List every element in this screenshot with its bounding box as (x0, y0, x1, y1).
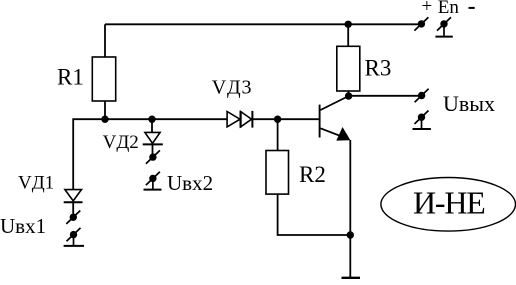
wire VD2 to input terminal (152, 144, 154, 153)
svg-text:Uвх1: Uвх1 (0, 214, 46, 238)
node emitter/R2/ground junction (347, 231, 354, 238)
svg-text:VД3: VД3 (212, 77, 253, 99)
node junction VD2/bus (148, 116, 155, 123)
transistor VT emitter arrow (336, 127, 350, 141)
node collector/R3/output junction (345, 92, 352, 99)
wire R1 bottom to bus (104, 101, 106, 119)
wire R2 drop (277, 119, 279, 150)
ground (342, 277, 361, 279)
diode VD2 (143, 132, 163, 144)
svg-text:VД2: VД2 (103, 132, 139, 153)
wire VD2 drop (151, 119, 153, 132)
terminal Uvyh output (415, 89, 429, 102)
wire top supply bus (105, 23, 421, 25)
terminal common under Uvyh (413, 111, 431, 130)
transistor VT collector (321, 96, 349, 110)
wire output (349, 95, 422, 97)
gate type ellipse (381, 178, 516, 232)
terminal Uvx2 input (146, 150, 160, 163)
svg-text:Uвых: Uвых (443, 91, 495, 116)
svg-text:R1: R1 (57, 65, 84, 90)
wire main input bus left with drop to VD1 (73, 119, 227, 189)
resistor R1 (92, 57, 115, 101)
terminal Uvx1 input (66, 211, 80, 224)
svg-text:R2: R2 (299, 162, 326, 187)
wire to ground (349, 235, 351, 277)
terminal En plus (414, 17, 428, 30)
svg-text:И-НЕ: И-НЕ (413, 185, 485, 221)
svg-text:Uвх2: Uвх2 (167, 171, 213, 195)
terminal common under Uvx1 (64, 228, 84, 246)
svg-text:+: + (422, 0, 433, 17)
terminal common under Uvx2 (144, 172, 162, 190)
wire R3 bottom (347, 91, 349, 96)
transistor VT emitter (321, 128, 341, 136)
node junction R3/top bus (345, 21, 352, 28)
wire bus right segment to transistor base (252, 118, 318, 120)
wire R2 bottom to emitter bus (278, 194, 351, 235)
svg-text:En: En (438, 0, 460, 18)
svg-text:VД1: VД1 (18, 172, 54, 193)
svg-text:R3: R3 (365, 55, 392, 80)
resistor R3 (337, 46, 360, 91)
diode VD1 (64, 190, 83, 203)
terminal En minus common (435, 17, 452, 36)
wire R1 top drop (104, 24, 106, 57)
node junction base/R2 (274, 116, 281, 123)
node junction R1/bus (101, 116, 108, 123)
wire R3 top drop (347, 24, 349, 46)
transistor VT base bar (319, 105, 321, 138)
diode VD3 (two in series) (227, 111, 252, 128)
wire emitter down (349, 140, 351, 235)
resistor R2 (266, 151, 289, 195)
wire VD1 to input terminal (72, 202, 74, 213)
